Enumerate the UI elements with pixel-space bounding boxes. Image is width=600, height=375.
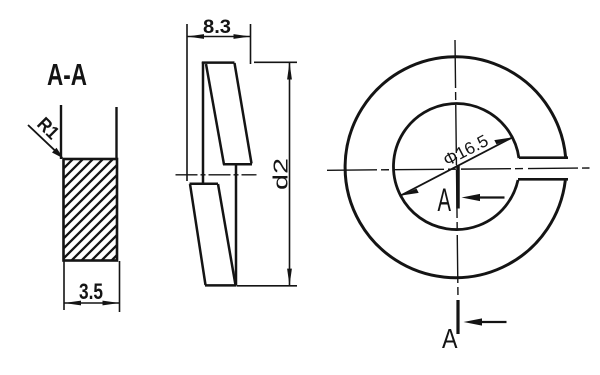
dimension line (289, 62, 291, 285)
svg-text:A: A (442, 323, 458, 354)
svg-text:A-A: A-A (47, 57, 87, 92)
wire: left slant edge (190, 184, 206, 285)
dimension line (64, 302, 120, 304)
upper section arrow (462, 194, 505, 201)
inner circle (with split gap at right) (393, 104, 518, 230)
wire: right vertical split face (235, 165, 238, 286)
wire: top edge of lower half (190, 183, 219, 186)
svg-text:A: A (438, 182, 452, 218)
outer circle (with split gap at right) (345, 57, 566, 278)
upper half of washer (side view) (202, 62, 252, 184)
split slot upper line (519, 156, 568, 159)
extension line right (250, 24, 252, 64)
lower section arrow (464, 318, 507, 325)
wire: inner slant edge (206, 64, 224, 165)
wire: bottom edge of upper half (223, 163, 252, 166)
svg-text:R1: R1 (32, 114, 63, 145)
svg-text:Φ16.5: Φ16.5 (440, 131, 491, 170)
dimension 3.5 (64, 261, 120, 312)
extension line bottom (237, 285, 298, 287)
wire: left vertical split face (202, 62, 205, 184)
vertical centerline (455, 40, 458, 299)
svg-text:d2: d2 (270, 158, 293, 190)
section rectangle (hatched) (64, 159, 118, 261)
leader R1 (28, 114, 64, 159)
svg-text:8.3: 8.3 (203, 17, 231, 38)
dimension d2 (237, 62, 298, 285)
split slot lower line (518, 178, 568, 181)
extension line top (254, 61, 297, 63)
cutting plane trace: lower thick segment (456, 300, 459, 334)
lower half of washer (side view) (190, 165, 237, 286)
wire: top edge (202, 61, 235, 64)
dimension 8.3 (187, 17, 251, 181)
centerline of side view (176, 174, 257, 176)
extension line left (63, 261, 65, 310)
wire: inner slant edge (218, 184, 236, 285)
dimension line (187, 36, 251, 38)
cutting plane trace: upper thick segment (456, 165, 460, 209)
extension line left (186, 24, 188, 181)
wire: bottom edge (205, 284, 236, 287)
wire: left projection line above section (60, 105, 62, 159)
svg-text:3.5: 3.5 (79, 279, 103, 304)
wire: right projection line above section (115, 107, 117, 159)
horizontal centerline (327, 168, 590, 170)
diameter dimension line (401, 131, 513, 196)
extension line right (119, 261, 121, 312)
wire: right slant edge (235, 63, 252, 164)
